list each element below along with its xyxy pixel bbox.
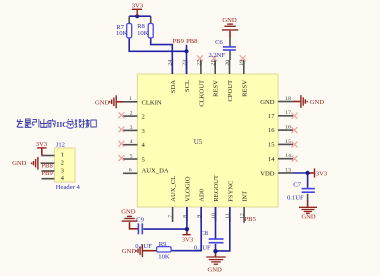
- svg-text:7: 7: [168, 215, 174, 218]
- svg-text:2: 2: [142, 114, 145, 121]
- svg-text:GND: GND: [95, 100, 110, 107]
- svg-text:RESV: RESV: [213, 80, 220, 97]
- svg-text:GND: GND: [208, 266, 223, 273]
- svg-text:23: 23: [182, 60, 188, 66]
- svg-text:Header 4: Header 4: [56, 184, 81, 191]
- svg-text:2: 2: [61, 160, 64, 167]
- svg-text:INT: INT: [242, 191, 249, 202]
- svg-text:AUX_DA: AUX_DA: [142, 168, 169, 175]
- svg-text:3V3: 3V3: [316, 170, 328, 177]
- svg-text:PB9: PB9: [173, 38, 185, 45]
- svg-text:21: 21: [211, 60, 217, 66]
- svg-text:AD0: AD0: [199, 188, 206, 202]
- svg-text:24: 24: [168, 60, 174, 66]
- svg-text:10K: 10K: [158, 254, 170, 261]
- svg-text:J12: J12: [56, 141, 65, 148]
- svg-text:3: 3: [130, 125, 133, 131]
- svg-text:14: 14: [285, 153, 291, 159]
- svg-text:VDD: VDD: [260, 170, 275, 177]
- svg-text:R8: R8: [137, 23, 145, 30]
- svg-text:IIC: IIC: [56, 120, 67, 129]
- svg-text:PB8: PB8: [41, 162, 53, 169]
- svg-text:20: 20: [225, 60, 231, 66]
- svg-text:16: 16: [285, 125, 291, 131]
- svg-text:SCL: SCL: [184, 80, 191, 92]
- svg-text:SDA: SDA: [170, 80, 177, 93]
- svg-text:PB8: PB8: [186, 38, 198, 45]
- svg-text:3V3: 3V3: [182, 237, 194, 244]
- svg-text:2.2NF: 2.2NF: [208, 52, 225, 59]
- svg-text:U5: U5: [194, 138, 203, 146]
- svg-text:3V3: 3V3: [36, 141, 48, 148]
- svg-text:CLKIN: CLKIN: [142, 99, 162, 106]
- svg-text:1: 1: [129, 96, 132, 102]
- svg-text:11: 11: [225, 213, 231, 219]
- svg-text:14: 14: [268, 156, 275, 163]
- svg-text:VLOGIO: VLOGIO: [184, 176, 191, 202]
- svg-text:1: 1: [61, 151, 64, 158]
- svg-text:0.1UF: 0.1UF: [135, 243, 152, 250]
- svg-text:GND: GND: [301, 213, 316, 220]
- svg-text:5: 5: [130, 153, 133, 159]
- svg-text:9: 9: [197, 215, 203, 218]
- svg-text:2: 2: [130, 111, 133, 117]
- svg-text:GND: GND: [121, 209, 136, 216]
- svg-text:18: 18: [285, 96, 291, 102]
- svg-text:GND: GND: [260, 99, 275, 106]
- svg-text:15: 15: [268, 142, 275, 149]
- svg-text:PB9: PB9: [41, 170, 53, 177]
- svg-text:PB5: PB5: [245, 216, 257, 223]
- svg-text:13: 13: [285, 167, 291, 173]
- svg-text:3V3: 3V3: [132, 3, 144, 10]
- svg-text:RESV: RESV: [241, 80, 248, 97]
- svg-text:4: 4: [130, 139, 133, 145]
- svg-text:REGOUT: REGOUT: [213, 175, 220, 202]
- svg-text:0.1UF: 0.1UF: [287, 195, 304, 202]
- svg-text:16: 16: [268, 127, 275, 134]
- svg-text:8: 8: [182, 215, 188, 218]
- svg-text:17: 17: [285, 110, 291, 116]
- svg-text:15: 15: [285, 139, 291, 145]
- svg-text:19: 19: [239, 60, 245, 66]
- svg-text:FSYNC: FSYNC: [227, 180, 234, 202]
- svg-text:CPOUT: CPOUT: [227, 80, 234, 102]
- svg-text:AUX_CL: AUX_CL: [170, 176, 177, 202]
- svg-text:C8: C8: [200, 230, 208, 237]
- svg-text:CLKOUT: CLKOUT: [198, 80, 205, 107]
- svg-text:17: 17: [268, 113, 275, 120]
- svg-text:GND: GND: [222, 17, 237, 24]
- svg-text:R9: R9: [159, 241, 167, 248]
- svg-text:C6: C6: [215, 39, 223, 46]
- svg-text:10K: 10K: [137, 30, 149, 37]
- svg-text:C7: C7: [293, 182, 301, 189]
- svg-text:GND: GND: [122, 248, 137, 255]
- svg-text:6: 6: [129, 168, 132, 174]
- svg-text:22: 22: [196, 60, 202, 66]
- svg-text:0.1UF: 0.1UF: [194, 245, 211, 252]
- svg-text:10K: 10K: [116, 30, 128, 37]
- svg-text:GND: GND: [12, 160, 27, 167]
- svg-text:10: 10: [211, 213, 217, 219]
- svg-text:C9: C9: [136, 217, 144, 224]
- svg-text:GND: GND: [310, 99, 325, 106]
